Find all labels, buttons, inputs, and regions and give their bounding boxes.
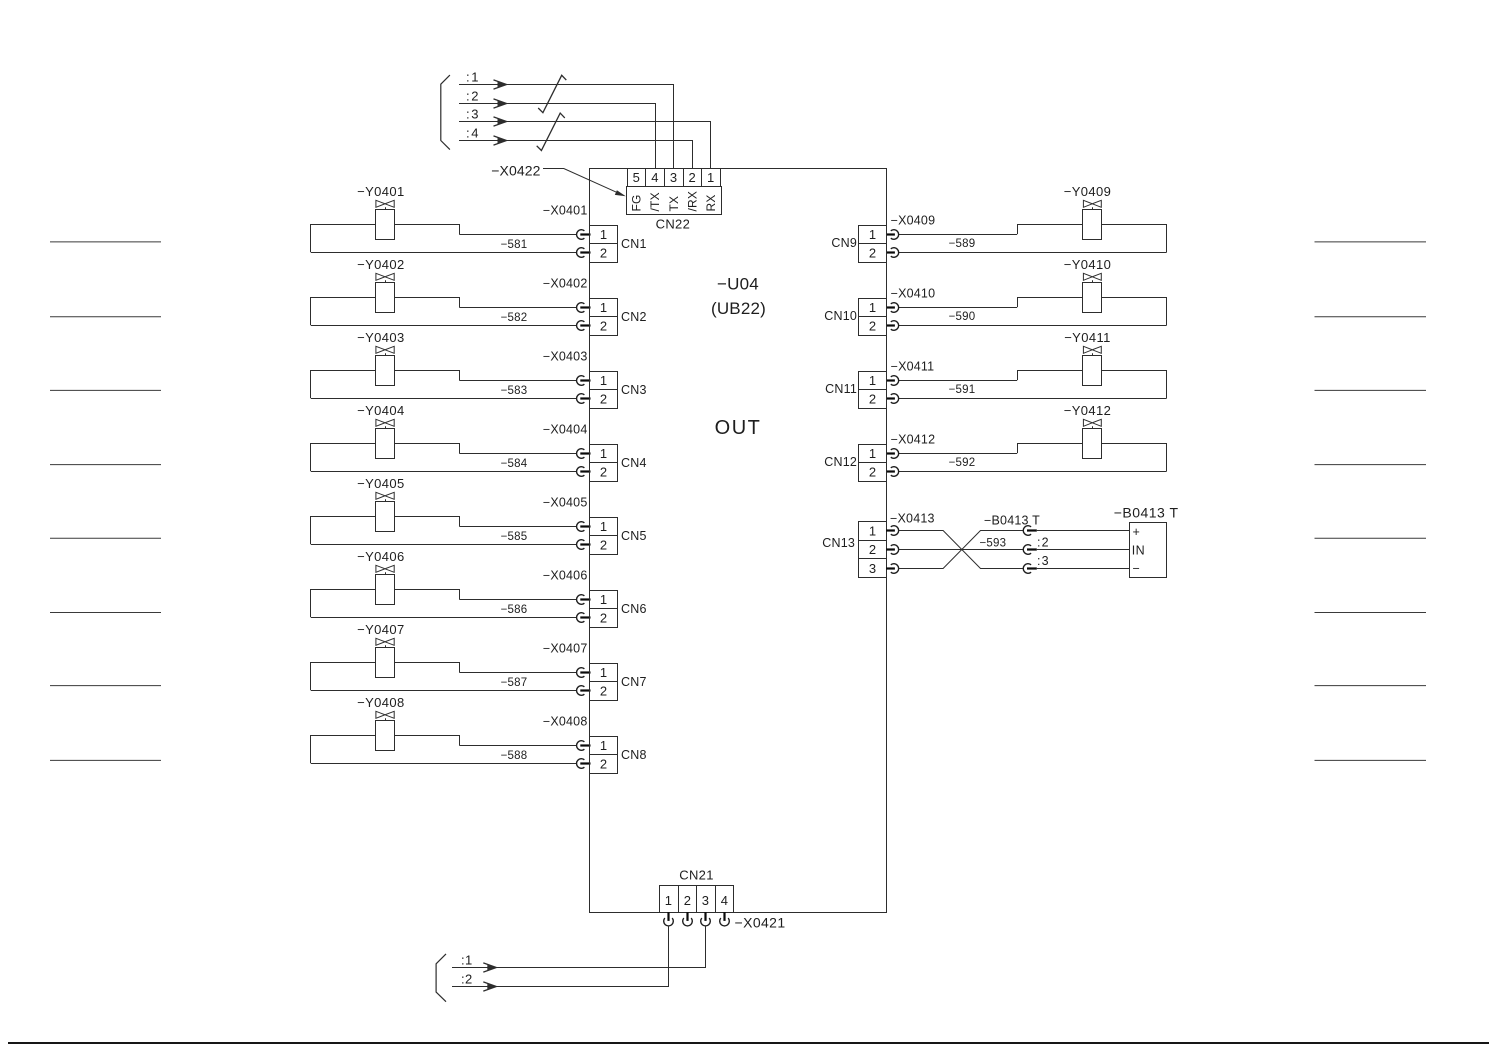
connector X0404 plug pin 1	[577, 449, 591, 459]
wire label -591	[949, 384, 976, 396]
svg-text:3: 3	[702, 893, 710, 908]
label (UB22)	[711, 299, 766, 318]
connector X0422 label	[491, 163, 540, 179]
svg-text:CN9: CN9	[831, 236, 857, 250]
connector CN1 pin 1	[590, 226, 618, 244]
connector CN13 pin 1	[859, 522, 887, 541]
connector CN1 pin 2	[590, 244, 618, 263]
connector X0421 plug pin 3	[701, 912, 711, 926]
valve Y0402 label	[357, 257, 405, 272]
svg-text:/TX: /TX	[648, 192, 662, 211]
connector X0408 label	[543, 715, 588, 729]
connector CN8 pin 2	[590, 755, 618, 774]
connector X0411 label	[891, 360, 935, 374]
connector X0412 label	[891, 433, 936, 447]
right edge wire stub 1	[1315, 241, 1427, 243]
svg-text:−X0404: −X0404	[543, 423, 588, 437]
label -U04	[717, 275, 759, 294]
connector X0410 label	[891, 287, 936, 301]
twisted pair mark wires 3-4	[537, 113, 565, 150]
valve Y0406 label	[357, 549, 405, 564]
connector CN3 label	[621, 383, 647, 397]
connector X0409 plug pin 2	[886, 248, 899, 258]
svg-text:CN6: CN6	[621, 602, 647, 616]
svg-text:2: 2	[869, 542, 877, 557]
svg-text:−B0413 T: −B0413 T	[1114, 505, 1179, 521]
connector CN10 pin 1	[859, 299, 887, 317]
svg-text:1: 1	[869, 446, 877, 461]
svg-text::1: :1	[461, 953, 473, 968]
svg-text:2: 2	[600, 757, 608, 772]
connector X0403 plug pin 1	[577, 376, 591, 386]
connector X0408 plug pin 1	[577, 741, 591, 751]
transducer pin +	[1133, 525, 1141, 539]
connector CN21 pin 3 number	[702, 893, 710, 908]
svg-text:−Y0412: −Y0412	[1064, 403, 1112, 418]
wire X0421 pin1 to :2	[452, 926, 669, 991]
connector X0412 plug pin 2	[886, 467, 899, 477]
connector CN21 pin 4 number	[721, 893, 729, 908]
wire label -587	[501, 677, 528, 689]
connector CN11 label	[825, 382, 857, 396]
valve Y0408 label	[357, 695, 405, 710]
connector CN21 label	[679, 868, 713, 883]
svg-text:CN5: CN5	[621, 529, 647, 543]
connector CN5 pin 2	[590, 536, 618, 555]
connector CN2 pin 2	[590, 317, 618, 336]
transducer B0413 T label	[1114, 505, 1179, 521]
valve Y0412 bowtie symbol	[1083, 419, 1101, 428]
connector X0402 label	[543, 277, 588, 291]
svg-text:1: 1	[665, 893, 673, 908]
wire Y0409 loop	[899, 224, 1167, 253]
svg-text::1: :1	[466, 70, 480, 85]
valve Y0409 body	[1083, 210, 1102, 240]
connector CN22 pin number row	[628, 169, 721, 187]
svg-text:−587: −587	[501, 677, 528, 689]
connector CN2 label	[621, 310, 647, 324]
svg-text:−Y0407: −Y0407	[357, 622, 405, 637]
label :1	[466, 70, 480, 85]
svg-text:−X0401: −X0401	[543, 204, 588, 218]
svg-text::4: :4	[466, 126, 480, 141]
label :1 bottom	[461, 953, 473, 968]
label :2 bottom	[461, 972, 473, 987]
wire X0422 :3	[459, 117, 711, 168]
svg-text:1: 1	[707, 170, 715, 185]
connector CN8 label	[621, 748, 647, 762]
connector X0410 plug pin 2	[886, 321, 899, 331]
connector CN2 pin 1	[590, 299, 618, 317]
wire label -581	[501, 239, 528, 251]
svg-text:CN3: CN3	[621, 383, 647, 397]
svg-text:5: 5	[633, 170, 641, 185]
svg-text:−591: −591	[949, 384, 976, 396]
svg-text:CN12: CN12	[824, 455, 857, 469]
connector CN10 label	[824, 309, 857, 323]
connector X0421 plug pin 4	[720, 912, 730, 926]
valve Y0411 label	[1064, 330, 1111, 345]
transducer pin IN	[1132, 544, 1145, 558]
svg-text:−Y0408: −Y0408	[357, 695, 405, 710]
valve Y0401 label	[357, 184, 405, 199]
cable bracket top	[441, 75, 450, 150]
valve Y0407 bowtie symbol	[376, 638, 394, 647]
connector CN21 pin 1 number	[665, 893, 673, 908]
svg-text:2: 2	[689, 170, 697, 185]
wire X0422 :2	[459, 99, 656, 168]
svg-text::2: :2	[461, 972, 473, 987]
connector B0413 plug pin 2	[1023, 545, 1037, 555]
cable bracket bottom	[436, 954, 446, 1002]
wire label -592	[949, 457, 976, 469]
connector X0406 label	[543, 569, 588, 583]
wire -593 CN13 pin2	[899, 549, 1024, 551]
connector X0413 plug pin 3	[886, 564, 899, 574]
svg-text:2: 2	[600, 246, 608, 261]
valve Y0404 bowtie symbol	[376, 419, 394, 428]
connector X0403 plug pin 2	[577, 394, 591, 404]
connector X0405 label	[543, 496, 588, 510]
wire X0422 :4	[459, 136, 693, 168]
valve Y0407 label	[357, 622, 405, 637]
wire label -582	[501, 312, 528, 324]
valve Y0405 label	[357, 476, 405, 491]
svg-text:−Y0403: −Y0403	[357, 330, 405, 345]
valve Y0410 body	[1083, 283, 1102, 313]
connector CN6 label	[621, 602, 647, 616]
valve Y0403 bowtie symbol	[376, 346, 394, 355]
connector X0405 plug pin 1	[577, 522, 591, 532]
valve Y0406 body	[376, 575, 395, 605]
connector B0413 plug pin 3	[1023, 564, 1037, 574]
svg-text:−X0421: −X0421	[735, 915, 786, 931]
svg-text:1: 1	[600, 373, 608, 388]
connector CN13 label	[822, 536, 855, 550]
svg-text:CN22: CN22	[656, 216, 690, 231]
svg-text:1: 1	[600, 738, 608, 753]
svg-text:1: 1	[600, 592, 608, 607]
valve Y0411 bowtie symbol	[1083, 346, 1101, 355]
wire label -590	[949, 311, 976, 323]
svg-text::2: :2	[1037, 536, 1050, 550]
connector CN10 pin 2	[859, 317, 887, 336]
svg-text:−584: −584	[501, 458, 528, 470]
svg-text:1: 1	[600, 227, 608, 242]
connector X0413 plug pin 1	[886, 526, 899, 536]
valve Y0406 bowtie symbol	[376, 565, 394, 574]
connector X0407 label	[543, 642, 588, 656]
connector X0413 label	[890, 512, 935, 526]
wire label -586	[501, 604, 528, 616]
svg-text:−590: −590	[949, 311, 976, 323]
connector CN8 pin 1	[590, 737, 618, 755]
connector CN12 pin 2	[859, 463, 887, 482]
valve Y0407 body	[376, 648, 395, 678]
right edge wire stub 7	[1315, 685, 1427, 687]
connector X0405 plug pin 2	[577, 540, 591, 550]
wire to transducer pin 2	[1037, 549, 1129, 551]
valve Y0405 body	[376, 502, 395, 532]
connector X0404 label	[543, 423, 588, 437]
connector X0401 plug pin 2	[577, 248, 591, 258]
label :2	[1037, 536, 1050, 550]
svg-text:OUT: OUT	[715, 417, 762, 439]
right edge wire stub 8	[1315, 759, 1427, 761]
valve Y0412 label	[1064, 403, 1112, 418]
connector CN22 label	[656, 216, 690, 231]
left edge wire stub 1	[50, 241, 161, 243]
valve Y0403 body	[376, 356, 395, 386]
wire label -583	[501, 385, 528, 397]
wire label -588	[501, 750, 528, 762]
wire Y0401 loop	[311, 224, 578, 253]
valve Y0408 bowtie symbol	[376, 711, 394, 720]
connector CN13 pin 2	[859, 541, 887, 559]
connector CN3 pin 2	[590, 390, 618, 409]
svg-text:−581: −581	[501, 239, 528, 251]
svg-text:−Y0406: −Y0406	[357, 549, 405, 564]
connector CN21 pin 2 number	[684, 893, 692, 908]
wire label -593	[980, 538, 1007, 550]
wire X0421 pin3 to :1	[452, 926, 706, 972]
connector X0409 label	[891, 214, 936, 228]
right edge wire stub 5	[1315, 537, 1427, 539]
left edge wire stub 2	[50, 316, 161, 318]
wire X0422 :1	[459, 80, 674, 168]
twisted pair mark wires 1-2	[538, 75, 566, 112]
svg-text:−X0406: −X0406	[543, 569, 588, 583]
svg-text:−Y0404: −Y0404	[357, 403, 405, 418]
svg-text:−Y0401: −Y0401	[357, 184, 405, 199]
drawing frame bottom border	[8, 1042, 1489, 1044]
svg-text:4: 4	[651, 170, 659, 185]
svg-text:2: 2	[600, 319, 608, 334]
svg-text:2: 2	[600, 611, 608, 626]
svg-text:−U04: −U04	[717, 275, 759, 294]
connector X0402 plug pin 2	[577, 321, 591, 331]
valve Y0402 bowtie symbol	[376, 273, 394, 282]
connector CN13 pin 3	[859, 559, 887, 578]
svg-text:1: 1	[869, 373, 877, 388]
wire Y0403 loop	[311, 370, 578, 399]
svg-text:−X0403: −X0403	[543, 350, 588, 364]
right edge wire stub 6	[1315, 612, 1427, 614]
svg-text:CN21: CN21	[679, 868, 713, 883]
connector X0412 plug pin 1	[886, 449, 899, 459]
connector X0411 plug pin 2	[886, 394, 899, 404]
svg-text:−593: −593	[980, 538, 1007, 550]
connector X0407 plug pin 2	[577, 686, 591, 696]
wire Y0411 loop	[899, 370, 1167, 399]
connector CN9 pin 1	[859, 226, 887, 244]
svg-text:CN10: CN10	[824, 309, 857, 323]
svg-text:3: 3	[670, 170, 678, 185]
wire Y0402 loop	[311, 297, 578, 326]
connector B0413 label	[984, 514, 1040, 528]
connector CN5 label	[621, 529, 647, 543]
svg-text:1: 1	[869, 300, 877, 315]
svg-text:−583: −583	[501, 385, 528, 397]
svg-text:−Y0409: −Y0409	[1064, 184, 1112, 199]
connector CN5 pin 1	[590, 518, 618, 536]
svg-text:1: 1	[600, 300, 608, 315]
connector CN4 label	[621, 456, 647, 470]
connector CN9 pin 2	[859, 244, 887, 263]
svg-text:−X0407: −X0407	[543, 642, 588, 656]
svg-text:−X0412: −X0412	[891, 433, 936, 447]
svg-text:−X0411: −X0411	[891, 360, 935, 374]
svg-text:1: 1	[600, 446, 608, 461]
svg-text:RX: RX	[704, 194, 718, 211]
left edge wire stub 6	[50, 612, 161, 614]
connector B0413 plug pin 1	[1023, 526, 1037, 536]
svg-text:−X0405: −X0405	[543, 496, 588, 510]
label :3	[1037, 554, 1050, 568]
valve Y0401 bowtie symbol	[376, 200, 394, 209]
connector X0413 plug pin 2	[886, 545, 899, 555]
connector CN11 pin 1	[859, 372, 887, 390]
svg-text:FG: FG	[630, 194, 644, 211]
valve Y0410 bowtie symbol	[1083, 273, 1101, 282]
left edge wire stub 8	[50, 759, 161, 761]
svg-text:2: 2	[869, 465, 877, 480]
svg-text:−Y0411: −Y0411	[1064, 330, 1111, 345]
wire Y0408 loop	[311, 735, 578, 764]
svg-text:−589: −589	[949, 238, 976, 250]
right edge wire stub 2	[1315, 316, 1427, 318]
connector X0409 plug pin 1	[886, 230, 899, 240]
svg-text:TX: TX	[667, 196, 681, 212]
leader line X0422	[543, 169, 626, 197]
valve Y0409 bowtie symbol	[1083, 200, 1101, 209]
connector CN6 pin 1	[590, 591, 618, 609]
svg-text::2: :2	[466, 89, 480, 104]
svg-text:−: −	[1133, 561, 1141, 575]
connector X0401 label	[543, 204, 588, 218]
connector CN22 signal name row	[627, 187, 722, 215]
unit U04 (UB22) box	[590, 169, 887, 913]
connector CN12 label	[824, 455, 857, 469]
svg-text:2: 2	[600, 538, 608, 553]
svg-text:−X0413: −X0413	[890, 512, 935, 526]
valve Y0408 body	[376, 721, 395, 751]
svg-text:1: 1	[600, 665, 608, 680]
svg-text:−592: −592	[949, 457, 976, 469]
valve Y0402 body	[376, 283, 395, 313]
wire to transducer pin 3	[1037, 568, 1129, 570]
svg-text:(UB22): (UB22)	[711, 299, 766, 318]
svg-text:CN1: CN1	[621, 237, 647, 251]
label :4	[466, 126, 480, 141]
valve Y0404 body	[376, 429, 395, 459]
connector CN21 pin cells	[660, 886, 734, 913]
svg-text:−X0422: −X0422	[491, 163, 540, 179]
valve Y0410 label	[1064, 257, 1112, 272]
connector X0410 plug pin 1	[886, 303, 899, 313]
svg-text:−586: −586	[501, 604, 528, 616]
wire label -589	[949, 238, 976, 250]
svg-text:CN7: CN7	[621, 675, 647, 689]
wire Y0404 loop	[311, 443, 578, 472]
svg-text:2: 2	[684, 893, 692, 908]
label :3	[466, 107, 480, 122]
connector X0421 plug pin 2	[683, 912, 693, 926]
left edge wire stub 3	[50, 389, 161, 391]
connector CN7 pin 1	[590, 664, 618, 682]
svg-text:CN8: CN8	[621, 748, 647, 762]
connector CN4 pin 1	[590, 445, 618, 463]
svg-text:1: 1	[869, 524, 877, 539]
connector X0406 plug pin 2	[577, 613, 591, 623]
connector CN9 label	[831, 236, 857, 250]
svg-text::3: :3	[466, 107, 480, 122]
valve Y0405 bowtie symbol	[376, 492, 394, 501]
svg-text:−X0408: −X0408	[543, 715, 588, 729]
left edge wire stub 4	[50, 464, 161, 466]
valve Y0401 body	[376, 210, 395, 240]
connector CN3 pin 1	[590, 372, 618, 390]
svg-text:1: 1	[869, 227, 877, 242]
svg-text:−582: −582	[501, 312, 528, 324]
right edge wire stub 3	[1315, 389, 1427, 391]
wire label -584	[501, 458, 528, 470]
svg-text:+: +	[1133, 525, 1141, 539]
svg-text:−588: −588	[501, 750, 528, 762]
connector X0407 plug pin 1	[577, 668, 591, 678]
svg-text:CN11: CN11	[825, 382, 857, 396]
svg-text:2: 2	[600, 684, 608, 699]
wire Y0405 loop	[311, 516, 578, 545]
svg-text:2: 2	[600, 392, 608, 407]
svg-text:−Y0402: −Y0402	[357, 257, 405, 272]
transducer B0413 box	[1130, 523, 1167, 578]
svg-text:CN2: CN2	[621, 310, 647, 324]
connector X0408 plug pin 2	[577, 759, 591, 769]
right edge wire stub 4	[1315, 464, 1427, 466]
svg-text:−585: −585	[501, 531, 528, 543]
connector X0411 plug pin 1	[886, 376, 899, 386]
label :2	[466, 89, 480, 104]
svg-text:CN4: CN4	[621, 456, 647, 470]
svg-text:−X0410: −X0410	[891, 287, 936, 301]
svg-text:CN13: CN13	[822, 536, 855, 550]
wire CN13 pin3 crossover	[899, 531, 1024, 569]
wire to transducer pin 1	[1037, 530, 1129, 532]
svg-text:−B0413 T: −B0413 T	[984, 514, 1040, 528]
connector X0406 plug pin 1	[577, 595, 591, 605]
svg-text:−Y0410: −Y0410	[1064, 257, 1112, 272]
wire Y0406 loop	[311, 589, 578, 618]
valve Y0404 label	[357, 403, 405, 418]
connector CN6 pin 2	[590, 609, 618, 628]
svg-text:4: 4	[721, 893, 729, 908]
connector CN12 pin 1	[859, 445, 887, 463]
connector X0401 plug pin 1	[577, 230, 591, 240]
svg-text::3: :3	[1037, 554, 1050, 568]
connector CN11 pin 2	[859, 390, 887, 409]
svg-text:−X0409: −X0409	[891, 214, 936, 228]
valve Y0411 body	[1083, 356, 1102, 386]
svg-text:/RX: /RX	[686, 191, 700, 212]
svg-text:2: 2	[600, 465, 608, 480]
connector CN7 pin 2	[590, 682, 618, 701]
svg-text:1: 1	[600, 519, 608, 534]
svg-text:2: 2	[869, 392, 877, 407]
svg-text:2: 2	[869, 319, 877, 334]
wire label -585	[501, 531, 528, 543]
connector CN1 label	[621, 237, 647, 251]
